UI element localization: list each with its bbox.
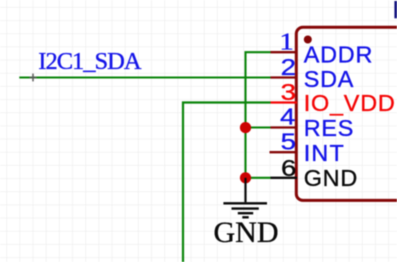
junction at pin 6 row xyxy=(240,172,251,183)
pin 6 stub (GND net) xyxy=(271,177,298,179)
pin 4 stub xyxy=(271,126,298,128)
ground symbol xyxy=(223,178,267,218)
svg-text:1: 1 xyxy=(279,28,293,55)
svg-text:INT: INT xyxy=(304,140,345,166)
component ref fragment (top right) xyxy=(394,1,397,18)
pin 3 stub (highlighted net) xyxy=(271,101,298,103)
svg-text:2: 2 xyxy=(281,55,296,81)
svg-text:ADDR: ADDR xyxy=(304,42,373,68)
svg-text:GND: GND xyxy=(304,165,358,191)
svg-text:I2C1_SDA: I2C1_SDA xyxy=(38,48,142,75)
pin 2 stub xyxy=(271,76,298,78)
component body U? outline xyxy=(296,27,397,200)
pin 5 stub xyxy=(270,151,298,153)
net label anchor cross xyxy=(29,74,36,82)
wire to pin 3 (horizontal + vertical down off-screen) xyxy=(183,103,271,262)
svg-text:5: 5 xyxy=(281,129,296,155)
pin-1 marker dot xyxy=(304,36,312,44)
svg-text:GND: GND xyxy=(214,216,279,249)
wire I2C1_SDA horizontal to pin 2 xyxy=(19,76,270,78)
pin 1 stub xyxy=(271,51,298,53)
svg-text:IO_VDD: IO_VDD xyxy=(304,90,396,116)
junction at pin 4 row xyxy=(240,122,251,133)
svg-text:3: 3 xyxy=(281,80,296,106)
svg-text:4: 4 xyxy=(280,104,295,130)
wire vertical pin1-pin4-pin6 xyxy=(246,52,271,178)
svg-text:6: 6 xyxy=(281,156,296,182)
svg-text:SDA: SDA xyxy=(304,66,355,92)
svg-text:RES: RES xyxy=(304,115,355,141)
